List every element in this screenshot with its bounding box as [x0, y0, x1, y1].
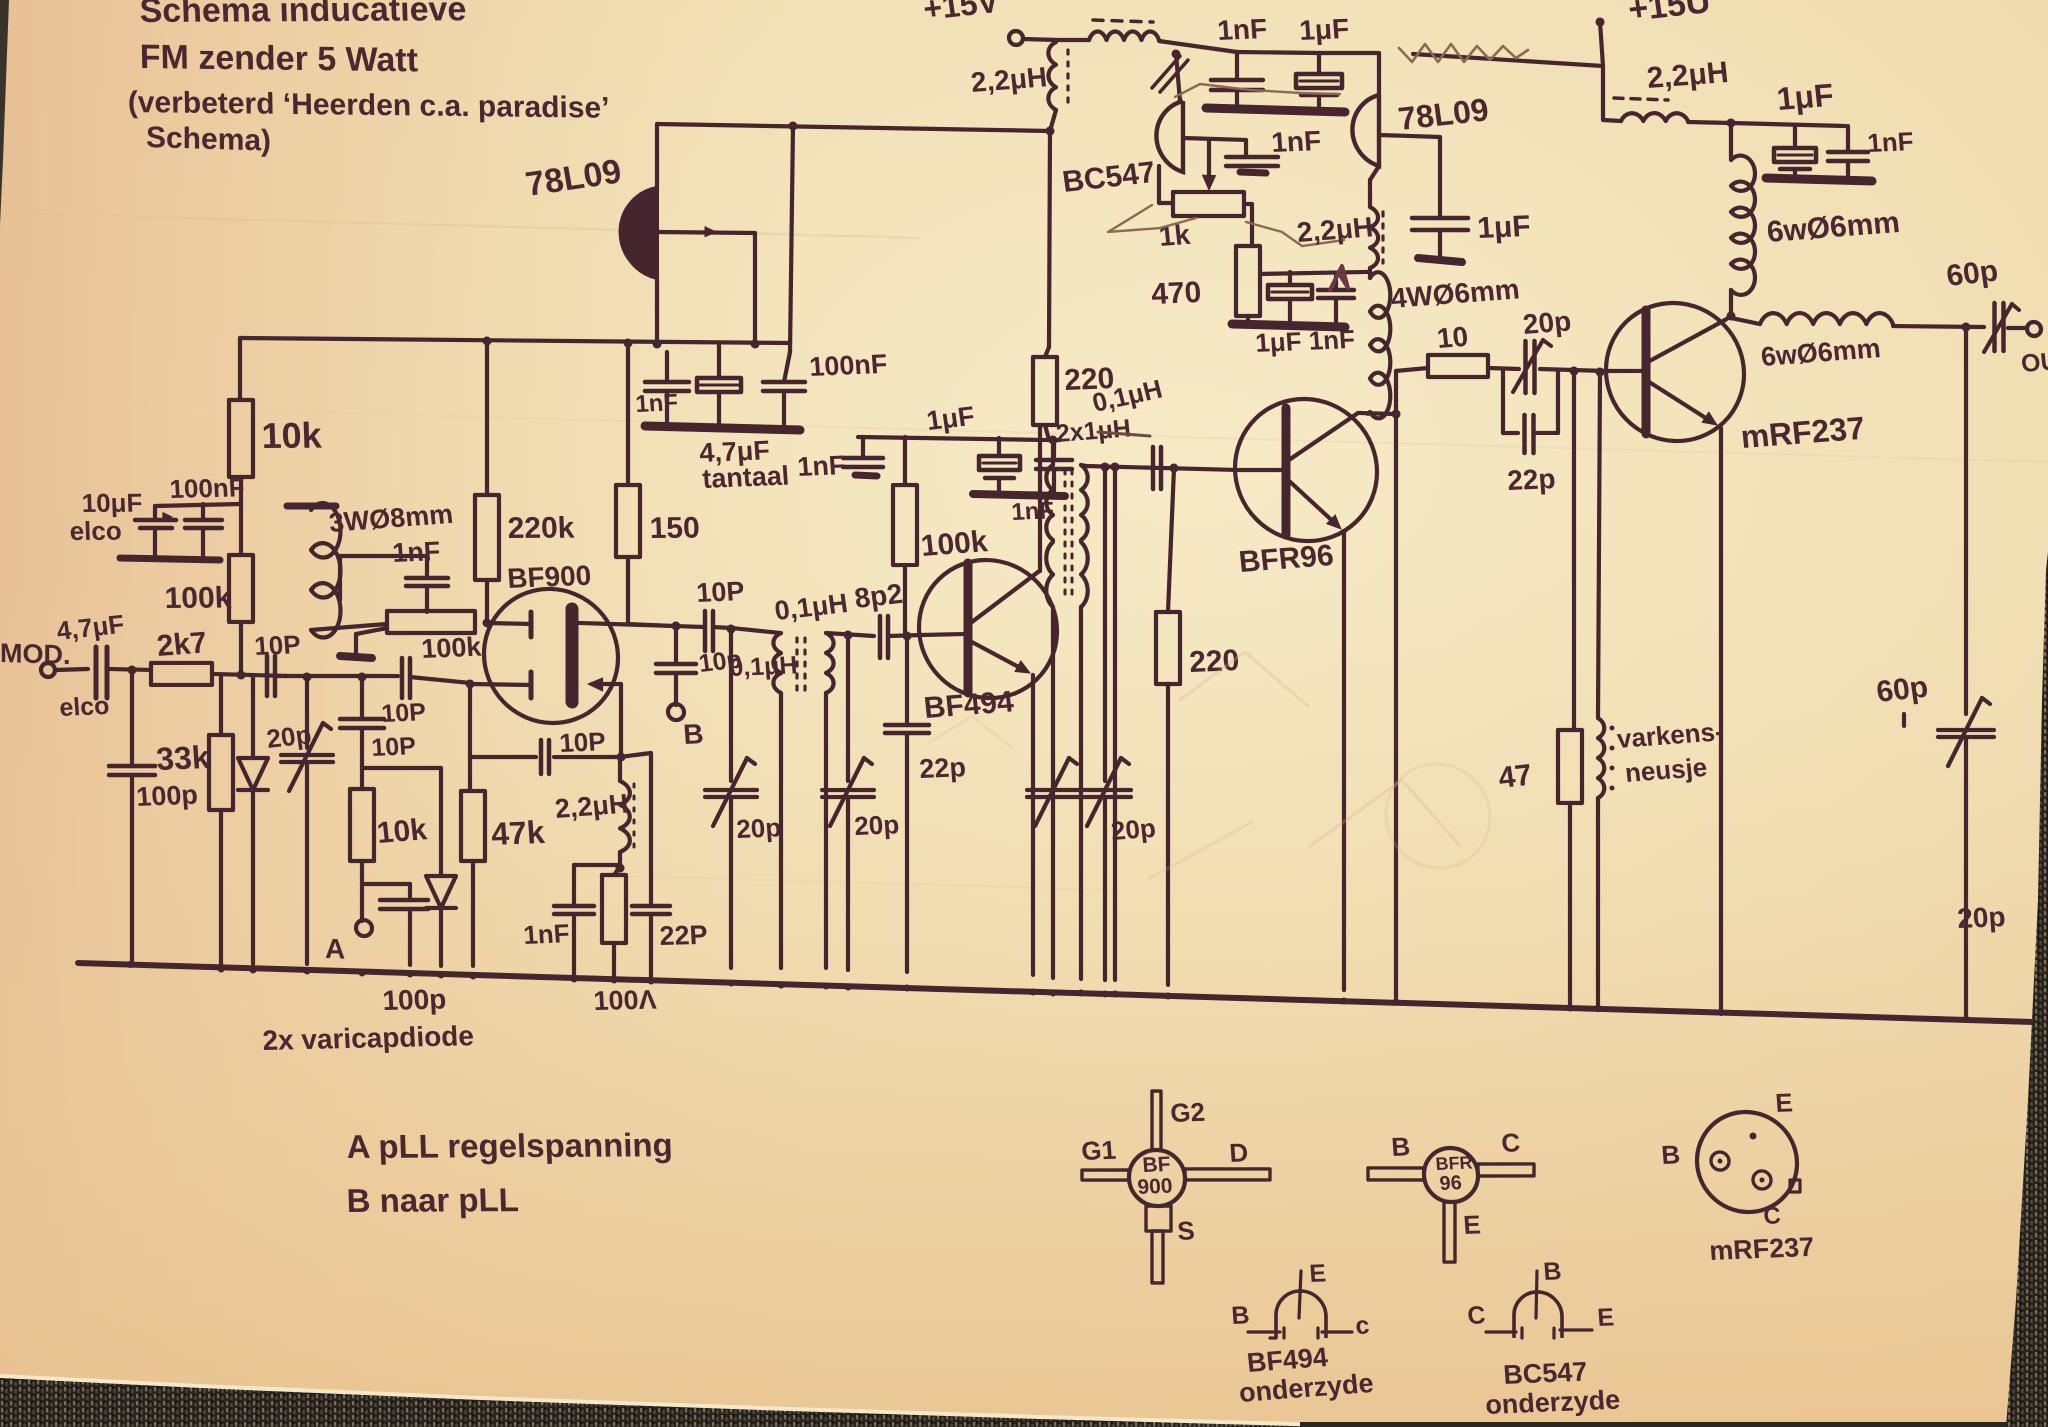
capacitor 1uF reg2	[1412, 216, 1468, 219]
svg-text:2x1μH: 2x1μH	[1055, 414, 1133, 448]
resistor 2k7	[151, 661, 212, 687]
wire choke2 to 1MF node	[1688, 122, 1731, 124]
svg-text:20p: 20p	[265, 719, 314, 754]
capacitor 100p varicap	[408, 884, 412, 900]
wire collector node	[1725, 316, 1731, 320]
fabric right strip	[2006, 552, 2048, 1427]
BF900 G1 lead	[470, 683, 531, 686]
wire 220 bottom joins bank	[1045, 425, 1049, 440]
svg-text:10: 10	[1435, 321, 1469, 354]
svg-text:1μF: 1μF	[925, 401, 977, 436]
wire rail continue to 78L09#2	[1319, 51, 1379, 55]
ground bus bank1	[645, 425, 800, 430]
BF494 base lead	[921, 633, 968, 637]
pot right lead	[1244, 202, 1252, 207]
svg-text:10P: 10P	[558, 726, 606, 758]
resistor 10	[1428, 353, 1488, 379]
wire winding to rail B	[1050, 110, 1056, 131]
BF900 drain lead	[578, 623, 676, 626]
transformer 0.1MH left winding	[773, 633, 781, 693]
svg-text:E: E	[1596, 1303, 1615, 1332]
wire 10p node to varicap2	[362, 766, 441, 771]
svg-text:8p2: 8p2	[853, 578, 905, 614]
wire trimmer to OUT	[2008, 327, 2027, 328]
svg-text:BC547: BC547	[1502, 1357, 1588, 1390]
wire 100k to signal rail	[239, 622, 243, 676]
capacitor 4.7uF elco input	[94, 647, 99, 698]
wire coil bottom node	[1368, 412, 1370, 414]
resistor 220 bfr	[1168, 468, 1174, 612]
wire to ground right of BFR	[1394, 414, 1398, 998]
capacitor 100nF	[185, 519, 222, 521]
pinout BF494 B lead	[1248, 1331, 1280, 1333]
wire rail scribble zone	[1413, 54, 1603, 66]
svg-text:C: C	[1500, 1127, 1521, 1158]
junction +15 right	[1596, 17, 1605, 26]
thin correction wavy 1	[1175, 83, 1340, 102]
wire transformer2 bottoms	[1051, 607, 1055, 978]
pinout BF494 C lead	[1322, 1331, 1352, 1333]
wire down to supply rail	[1049, 131, 1050, 347]
pinout BFR96 B lead	[1368, 1166, 1424, 1181]
capacitor 1MF bc bank	[1317, 53, 1321, 74]
MRF237 base lead	[1606, 370, 1646, 372]
svg-text:onderzyde: onderzyde	[1484, 1385, 1621, 1420]
resistor 10k varicap	[350, 788, 374, 861]
svg-text:22P: 22P	[659, 920, 709, 951]
MRF237 collector lead	[1646, 318, 1725, 366]
svg-text:BF: BF	[1142, 1153, 1172, 1177]
svg-text:1μF: 1μF	[1298, 13, 1350, 46]
wire 220 top to supply	[1045, 347, 1049, 357]
svg-text:10P: 10P	[695, 576, 745, 608]
wire tank node	[618, 852, 622, 868]
svg-text:C: C	[1466, 1301, 1486, 1330]
pinout BF900 G1 lead	[1082, 1169, 1129, 1182]
svg-text:A pLL regelspanning: A pLL regelspanning	[346, 1126, 673, 1165]
capacitor 100nF bank1	[784, 352, 790, 382]
svg-text:E: E	[1462, 1209, 1481, 1240]
terminal A	[356, 920, 372, 936]
resistor 100k stage2	[903, 437, 907, 485]
wire to BF900 G1	[410, 677, 470, 683]
capacitor 1nF bank2b	[1049, 438, 1060, 443]
svg-text:G1: G1	[1080, 1135, 1117, 1166]
svg-text:2,2μH: 2,2μH	[1295, 211, 1374, 248]
MRF237 emitter lead	[1646, 380, 1712, 422]
capacitor 1nF bc bank	[1235, 52, 1239, 80]
BFR96 base lead	[1236, 469, 1286, 472]
potentiometer 1k	[1173, 190, 1244, 218]
squiggle correction	[1399, 42, 1528, 65]
wire 78L09#2 top	[1377, 53, 1381, 95]
svg-text:B: B	[1390, 1131, 1411, 1162]
junction dots base rail	[1101, 462, 1110, 471]
wire 100p drop	[130, 670, 134, 766]
svg-text:neusje: neusje	[1623, 752, 1708, 788]
svg-text:B naar pLL: B naar pLL	[346, 1181, 520, 1219]
coil 6w horizontal out	[1731, 318, 1760, 324]
wire 8p2 to BF494 base	[889, 634, 921, 637]
svg-text:B: B	[1542, 1257, 1562, 1286]
svg-text:47: 47	[1496, 759, 1534, 795]
trimmer 60p out	[1992, 303, 1997, 351]
wire bank rail	[858, 434, 1049, 442]
thin correction wavy 3	[1246, 222, 1344, 247]
resistor 100k	[229, 554, 253, 622]
wire choke to BC547 rail	[1159, 41, 1237, 52]
svg-text:BFR: BFR	[1435, 1152, 1473, 1173]
wire 10k to A node	[360, 861, 364, 884]
wire 1105 dropper	[1103, 467, 1107, 781]
svg-text:E: E	[1308, 1259, 1327, 1288]
wire emitter arrow to pot	[1207, 141, 1211, 178]
BF494 emitter lead	[968, 640, 1026, 671]
fabric bottom strip	[1300, 1422, 2048, 1427]
wire transformer2 tops	[1051, 440, 1055, 465]
BF900 channel bar	[566, 609, 579, 702]
svg-text:22p: 22p	[918, 752, 967, 784]
svg-text:100nF: 100nF	[169, 472, 246, 504]
faint creases	[0, 213, 920, 238]
svg-text:20p: 20p	[853, 809, 900, 841]
wire 22p branch	[620, 752, 651, 758]
svg-text:470: 470	[1150, 276, 1202, 311]
svg-text:c: c	[1354, 1311, 1370, 1340]
svg-text:60p: 60p	[1944, 254, 2000, 292]
trimmer 20p input	[305, 677, 309, 748]
svg-text:D: D	[1228, 1137, 1249, 1168]
wire mid lead down	[753, 233, 757, 344]
wire supply rail left	[240, 327, 790, 354]
resistor 100ohm	[602, 874, 626, 943]
capacitor 1nF bc2	[1244, 140, 1248, 157]
wire out dropper	[1964, 327, 1968, 714]
capacitor 10p feedback	[539, 740, 544, 774]
pinout BC547 E lead	[1560, 1329, 1592, 1331]
svg-text:A: A	[325, 933, 345, 965]
wire top rail 78L09 to transformer	[657, 119, 1050, 135]
svg-text:10P: 10P	[253, 629, 301, 661]
svg-text:100p: 100p	[382, 984, 447, 1016]
wire varicap1 drop	[251, 677, 255, 758]
pinout MRF237 body	[1697, 1111, 1797, 1214]
regulator 78L09 #1 body	[621, 187, 657, 278]
svg-text:100nF: 100nF	[808, 349, 888, 382]
wire tank to 1nF	[574, 864, 620, 867]
svg-text:2,2μH: 2,2μH	[1645, 56, 1730, 95]
wire 100k to base	[903, 565, 907, 633]
wire out to trimmer	[1893, 324, 1984, 328]
choke 2.2uH dashes	[1093, 20, 1153, 22]
svg-text:10k: 10k	[375, 813, 429, 850]
svg-text:FM zender 5 Watt: FM zender 5 Watt	[139, 38, 418, 79]
regulator 78L09 #2 body	[1352, 94, 1379, 166]
terminal MOD input	[41, 663, 55, 677]
BF494 collector lead	[968, 570, 1038, 627]
BF900 source lead with substrate arrow	[592, 683, 621, 685]
coil varkensneusje	[1598, 372, 1600, 718]
resistor 220k	[475, 494, 499, 580]
thin correction wavy 2	[1108, 204, 1196, 235]
svg-text:100p: 100p	[135, 780, 198, 812]
ground bus bc2	[1232, 324, 1345, 328]
coil 2.2MH reg2	[1370, 207, 1378, 268]
svg-text:2,2μH: 2,2μH	[553, 789, 629, 824]
capacitor 1nF gate	[425, 586, 429, 612]
capacitor 8p2	[878, 616, 883, 658]
resistor 47k	[468, 757, 472, 791]
svg-text:60p: 60p	[1874, 670, 1930, 708]
svg-text:elco: elco	[58, 692, 110, 722]
svg-text:1nF: 1nF	[796, 450, 846, 482]
ground bus right bank	[1766, 178, 1872, 181]
resistor 100k horizontal	[387, 608, 475, 635]
wire MRF emitter down	[1719, 428, 1723, 1014]
svg-text:10P: 10P	[370, 732, 416, 762]
svg-text:B: B	[1230, 1301, 1250, 1330]
transistor MRF237 body	[1606, 301, 1744, 443]
svg-text:1nF: 1nF	[1216, 13, 1268, 46]
wire 10 to trimmer	[1488, 368, 1519, 369]
transistor BF494 body	[919, 558, 1057, 700]
wire coil to collector node	[1729, 290, 1733, 316]
svg-text:96: 96	[1439, 1172, 1463, 1195]
svg-text:BF900: BF900	[506, 560, 592, 594]
transformer vertical winding	[1048, 42, 1056, 110]
transistor BFR96 body	[1235, 397, 1377, 543]
svg-text:elco: elco	[69, 516, 122, 546]
svg-text:1μF: 1μF	[1476, 210, 1532, 245]
capacitor 22p tank	[632, 905, 670, 907]
pinout BF900 G2 lead	[1152, 1091, 1161, 1150]
parallel 22p loop	[1501, 369, 1505, 433]
wire 78L09 in from top rail	[655, 124, 659, 188]
capacitor 1nF bank2	[861, 437, 865, 458]
transistor BC547 body	[1156, 100, 1183, 172]
svg-text:100k: 100k	[420, 632, 483, 664]
svg-text:2k7: 2k7	[155, 626, 208, 663]
choke 2.2MH right dashes	[1614, 98, 1668, 100]
svg-text:150: 150	[649, 512, 700, 545]
BFR96 base bar	[1282, 408, 1291, 534]
transistor BF900 body	[484, 587, 618, 725]
wire +15 to junction	[1023, 39, 1058, 40]
wire B node drop	[674, 626, 678, 664]
wire 78L09 out down	[655, 278, 659, 344]
capacitor 1nF right	[1846, 126, 1850, 152]
wire to transformer	[731, 628, 781, 633]
x-out scribble	[1152, 55, 1180, 89]
svg-text:20p: 20p	[1956, 901, 2006, 934]
BFR96 collector lead	[1286, 411, 1358, 464]
wire rail to caps	[1237, 51, 1319, 55]
BF900 G2 lead	[487, 623, 531, 625]
wire up to 10 res	[1394, 371, 1398, 414]
resistor 150	[616, 484, 640, 557]
resistor 10k	[229, 399, 253, 477]
trimmer 20p out	[1938, 728, 1994, 731]
BF900 gate bars	[529, 612, 534, 637]
svg-text:10P: 10P	[380, 698, 426, 728]
wire 10p node drop	[360, 677, 364, 719]
svg-text:(verbeterd ‘Heerden c.a. parad: (verbeterd ‘Heerden c.a. paradise’	[128, 86, 610, 125]
ground bus bank2	[973, 493, 1065, 496]
wire source column	[619, 684, 623, 757]
capacitor 22p base	[905, 636, 909, 725]
wire drain rail	[628, 624, 676, 626]
coil 3W 8mm top bar	[287, 505, 336, 508]
capacitor 10p series1	[265, 656, 270, 696]
wire G1 node down	[466, 679, 475, 688]
terminal OUT	[2027, 322, 2041, 336]
resistor 470	[1236, 245, 1260, 316]
wire down to choke2	[1601, 66, 1605, 120]
svg-text:C: C	[1763, 1202, 1782, 1230]
svg-text:E: E	[1774, 1087, 1793, 1118]
svg-text:10k: 10k	[261, 415, 323, 456]
svg-text:Schema): Schema)	[146, 121, 271, 158]
svg-text:1nF: 1nF	[1866, 126, 1914, 158]
ghost bleedthrough marks	[1180, 650, 1308, 706]
svg-text:100k: 100k	[164, 582, 232, 615]
pinout BF900 body	[1129, 1149, 1185, 1207]
wire 150 drop	[624, 338, 633, 347]
pinout BC547 B lead	[1536, 1271, 1537, 1318]
wire 10k branch corner	[238, 338, 242, 400]
transformer 0.1MH right winding	[826, 633, 834, 693]
capacitor 1nF tank	[554, 905, 594, 907]
diode varicap 1	[238, 757, 268, 790]
svg-text:20p: 20p	[735, 812, 782, 844]
coil 2.2MH tank	[618, 757, 622, 781]
transformer 2x1uH windings	[1046, 465, 1053, 540]
capacitor 10p shunt	[340, 718, 384, 721]
wire 78L09#2 mid out	[1379, 135, 1440, 137]
terminal B	[668, 704, 684, 720]
terminal +15V	[1009, 31, 1023, 45]
trimmer 20p driver	[1523, 341, 1528, 393]
wire 10k to 100nF node	[239, 477, 243, 555]
BC547 emitter lead	[1183, 138, 1246, 140]
trimmer 20p osc	[729, 629, 733, 781]
wire 10p to next	[275, 672, 398, 679]
BF494 base bar	[964, 563, 973, 693]
wire 33k drop	[219, 676, 223, 735]
coil 6w 6mm vertical	[1729, 123, 1733, 160]
svg-text:B: B	[682, 718, 704, 750]
trimmer 20p stage2	[846, 635, 850, 781]
wire 150 to drain rail	[626, 557, 630, 624]
svg-text:100Λ: 100Λ	[593, 985, 658, 1016]
svg-text:33k: 33k	[155, 739, 211, 777]
svg-text:100k: 100k	[919, 525, 989, 563]
pinout BC547 body	[1514, 1291, 1562, 1339]
capacitor 8p2 stage3	[1151, 447, 1156, 489]
top-left dark sliver	[0, 0, 9, 225]
choke 2.2MH right	[1603, 120, 1621, 121]
pinout BF494 body	[1276, 1290, 1326, 1339]
transformer 0.1MH core	[795, 638, 798, 690]
wire trimmer to base	[1540, 369, 1606, 371]
BC547 base to pot	[1157, 166, 1161, 203]
wire feedback row	[470, 755, 536, 759]
diode varicap 2	[439, 768, 443, 876]
capacitor 1MF right	[1793, 126, 1797, 148]
capacitor 10uF elco	[135, 519, 176, 521]
capacitor 100p	[109, 765, 155, 768]
wire A node right	[362, 883, 410, 886]
wire coil to 100k	[311, 622, 387, 632]
svg-text:10μF: 10μF	[81, 488, 143, 518]
svg-text:900: 900	[1137, 1175, 1174, 1199]
wire sec to 8p2	[826, 633, 874, 636]
svg-text:22p: 22p	[1506, 463, 1556, 496]
svg-text:G2: G2	[1169, 1097, 1206, 1128]
capacitor 22p driver base	[1902, 714, 1906, 726]
wire 220k drop	[483, 336, 492, 345]
coil 4W 6mm	[1368, 268, 1372, 278]
pinout BF900 S lead	[1146, 1205, 1171, 1231]
svg-text:2,2μH: 2,2μH	[969, 61, 1048, 98]
pinout BF900 D lead	[1185, 1166, 1270, 1182]
wire 793 branch	[789, 121, 798, 130]
caps 1MF 1nF bc	[1260, 269, 1368, 277]
ground bar caps	[120, 557, 220, 561]
capacitor 10p series2	[400, 658, 405, 698]
wire mod to cap	[55, 668, 88, 671]
svg-text:1μF 1nF: 1μF 1nF	[1254, 324, 1356, 358]
svg-text:20p: 20p	[1521, 305, 1572, 340]
resistor 33k	[209, 734, 233, 810]
resistor 47 bias	[1572, 371, 1576, 730]
svg-text:tantaal: tantaal	[701, 461, 790, 494]
svg-text:2x varicapdiode: 2x varicapdiode	[262, 1020, 475, 1056]
wire windings to ground	[779, 693, 783, 968]
svg-text:B: B	[1660, 1139, 1681, 1170]
capacitor 4.7uF tantaal	[717, 344, 721, 378]
wire 100nF node	[155, 501, 241, 508]
ground rail	[78, 963, 2034, 1022]
BFR96 base rail	[1086, 466, 1236, 471]
wire 2k7 out	[212, 674, 287, 676]
capacitor 1nF bank1	[665, 352, 669, 382]
pinout BFR96 body	[1424, 1147, 1478, 1203]
pinout BFR96 C lead	[1478, 1162, 1534, 1177]
BFR96 emitter lead	[1286, 478, 1337, 525]
coil 3W 8mm	[311, 503, 341, 638]
fabric bottom-left wedge	[0, 1376, 1330, 1425]
svg-text:1nF: 1nF	[1270, 125, 1322, 158]
svg-text:1nF: 1nF	[635, 389, 679, 418]
svg-text:Schema inducatieve: Schema inducatieve	[139, 0, 467, 30]
wire 1115 dropper	[1113, 467, 1117, 980]
wire 220k to G2	[485, 580, 489, 623]
ground stub 100k	[356, 627, 387, 635]
wire 78L09 mid lead	[657, 230, 755, 235]
svg-text:1nF: 1nF	[391, 536, 441, 568]
capacitor 1MF bank2	[997, 438, 1001, 456]
capacitor 10p B node	[656, 663, 696, 665]
svg-text:mRF237: mRF237	[1708, 1232, 1815, 1266]
ground bus bc bank	[1206, 108, 1345, 112]
svg-text:1nF: 1nF	[522, 918, 570, 950]
resistor 220 collector	[1033, 356, 1057, 425]
svg-text:S: S	[1176, 1215, 1195, 1246]
svg-text:0,1μH: 0,1μH	[728, 651, 798, 682]
svg-text:OUT: OUT	[2020, 346, 2048, 378]
wire emitter down	[1031, 675, 1035, 975]
